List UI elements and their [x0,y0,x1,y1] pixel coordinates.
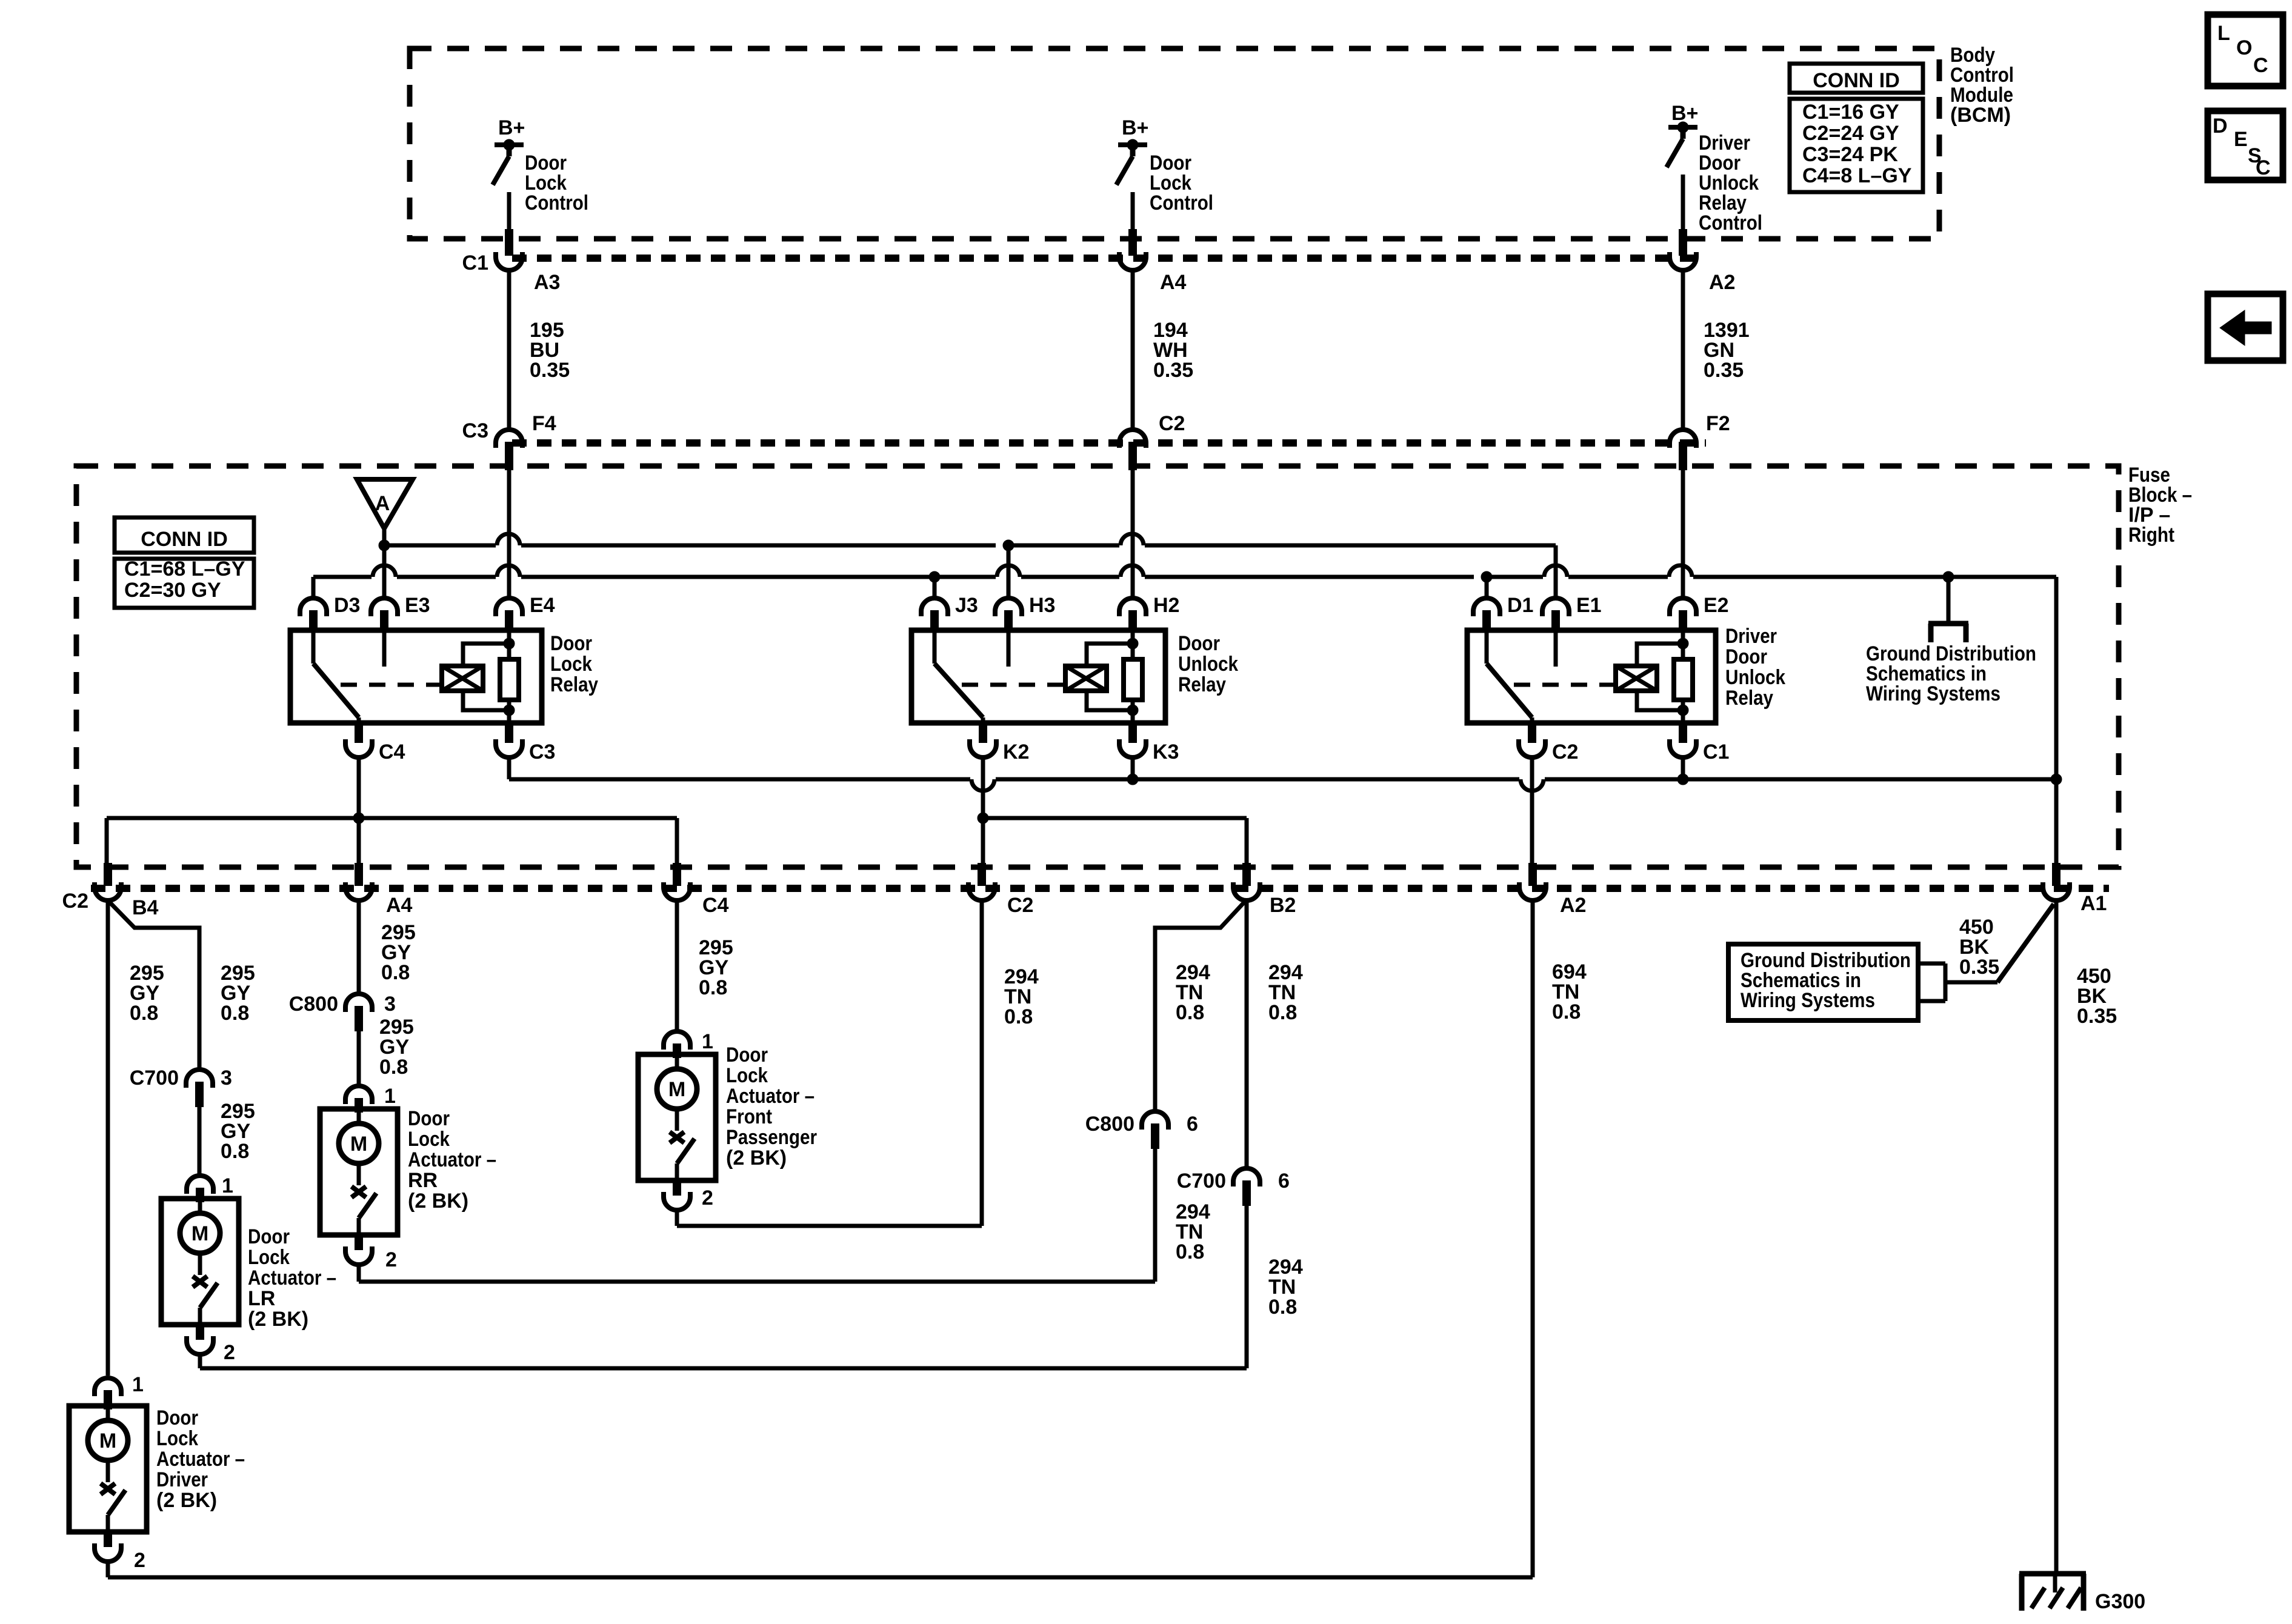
label: pin A2 [1560,894,1586,917]
svg-text:(2 BK): (2 BK) [726,1146,787,1170]
label: wire 295 GY 0.8 (after C700) [221,1100,255,1163]
svg-text:2: 2 [134,1549,145,1572]
door lock actuator driver: motor M [88,1406,128,1460]
svg-text:D1: D1 [1507,594,1533,617]
connector: relay output pin C4 [345,724,372,757]
label: pin B4 [132,896,159,919]
label: Door Lock Control (left switch) [525,151,588,215]
label: B+ (middle) [1122,116,1148,139]
svg-text:C3: C3 [529,740,555,764]
svg-text:A1: A1 [2080,892,2107,915]
svg-text:0.8: 0.8 [699,976,727,999]
svg-text:0.8: 0.8 [221,1002,249,1025]
door lock actuator RR: switch contact and lever [351,1163,376,1235]
label: LR pin 1 [222,1174,233,1197]
label: B+ (right) [1671,102,1698,125]
relay: Door Unlock Relay: fixed contact stub [1007,630,1011,667]
B+ terminal and switch driver (middle) in BCM [1116,139,1147,185]
relay: Door Lock Relay: coil (crossed box) [442,666,483,691]
wire: E2 drop (right column) [1681,470,1685,597]
wire: unlock-feed bus from K2 to connectors C2 and B2 [978,759,1247,863]
B+ terminal and switch driver (left) in BCM [493,139,524,185]
svg-text:C700: C700 [1177,1170,1226,1193]
wire: C800-3 to RR actuator pin 1 [357,1031,361,1085]
svg-text:D: D [2213,115,2228,138]
label: pin 6 [1278,1170,1290,1193]
svg-text:M: M [192,1222,208,1245]
svg-text:K3: K3 [1153,740,1179,764]
icon box: DESC [2208,111,2283,180]
svg-text:6: 6 [1278,1170,1290,1193]
svg-text:0.8: 0.8 [1176,1001,1204,1024]
wire: D1 riser [1485,577,1489,597]
ground G300 symbol [2019,1572,2086,1611]
label: pin E3 [405,594,430,617]
label: relay: Door Lock Relay [550,632,598,696]
label: relay: Door Unlock Relay [1178,632,1238,696]
svg-text:E4: E4 [530,594,555,617]
svg-text:C800: C800 [289,993,338,1016]
svg-text:B4: B4 [132,896,159,919]
connector: door lock actuator LR pin 2 [187,1325,213,1354]
svg-text:F2: F2 [1706,412,1730,435]
label: pin F4 [532,412,556,435]
connector: relay output pin C2 [1519,724,1545,757]
svg-text:L: L [2217,22,2230,45]
svg-text:E2: E2 [1704,594,1729,617]
label: pin C2 [1552,740,1578,764]
svg-text:(2 BK): (2 BK) [156,1489,217,1512]
svg-text:Actuator –: Actuator – [248,1266,336,1290]
label: pin C4 [379,740,405,764]
label: door lock actuator front passenger [726,1043,817,1170]
svg-text:J3: J3 [955,594,978,617]
wire: C2 drop to front passenger actuator pin 2 [677,902,982,1226]
svg-text:E1: E1 [1576,594,1602,617]
wire: C4 drop to front passenger actuator pin 1 [675,902,679,1030]
svg-text:(BCM): (BCM) [1950,104,2011,127]
label: Driver Door Unlock Relay Control (right switch) [1699,131,1762,235]
label: pin C2 [1159,412,1185,435]
connector: door lock actuator RR pin 1 [345,1086,372,1113]
svg-text:Unlock: Unlock [1178,653,1238,676]
relay: Driver Door Unlock Relay: fixed contact stub [1554,630,1558,667]
label: wire 294 TN 0.8 (C2 column) [1004,965,1039,1028]
svg-text:A4: A4 [1160,271,1187,294]
svg-text:Unlock: Unlock [1725,666,1785,689]
svg-text:C4: C4 [702,894,729,917]
svg-text:0.8: 0.8 [1004,1005,1033,1028]
label: wire 294 TN 0.8 (C700 branch) [1268,961,1303,1024]
svg-text:Passenger: Passenger [726,1126,817,1149]
svg-text:Door: Door [1725,645,1767,668]
connector C800 pin 3 (in-line, RR door) [345,994,372,1031]
svg-text:Door: Door [726,1043,768,1067]
CONN ID table of fuse block (C1=68 L-GY, C2=30 GY) [115,517,254,608]
label: wire 295 GY 0.8 (driver branch) [130,962,164,1025]
svg-text:Door: Door [1178,632,1220,655]
svg-text:B+: B+ [1671,102,1698,125]
relay: Door Unlock Relay: coil suppression resistor [1124,630,1142,723]
B+ terminal and switch driver (right) in BCM [1667,122,1697,167]
svg-text:C: C [2256,156,2271,179]
svg-text:G300: G300 [2095,1590,2145,1613]
relay: Driver Door Unlock Relay: coil (crossed box) [1616,666,1657,691]
svg-text:B+: B+ [498,116,525,139]
svg-text:O: O [2236,36,2252,59]
label: pin D1 [1507,594,1533,617]
svg-text:A3: A3 [534,271,560,294]
label: door lock actuator driver [156,1406,245,1512]
label: pin B2 [1270,894,1296,917]
connector: fuse block bottom pin A1 [2043,863,2070,900]
icon box: back arrow [2208,294,2283,361]
icon box: LOC [2208,15,2283,86]
label: wire 294 TN 0.8 (to LR pin 2) [1268,1256,1303,1319]
svg-text:C: C [2253,54,2268,77]
module box: Body Control Module (BCM), dashed border [410,48,1939,239]
door lock actuator LR: switch contact and lever [193,1253,218,1325]
connector row line: fuse block bottom connectors (dotted) [91,885,2109,892]
label: door lock actuator LR [248,1225,336,1331]
svg-text:C3=24 PK: C3=24 PK [1802,143,1898,166]
connector: relay pin J3 [921,598,948,631]
svg-text:0.8: 0.8 [130,1002,158,1025]
svg-text:C4=8 L–GY: C4=8 L–GY [1802,164,1912,187]
connector C2 pin F2 (fuse block, right) [1670,430,1696,470]
svg-text:Door: Door [248,1225,290,1248]
svg-text:1: 1 [132,1373,144,1396]
relay: Driver Door Unlock Relay: coil suppression resistor [1674,630,1693,723]
label: door lock actuator RR [408,1107,496,1213]
connector: relay pin H2 [1119,598,1146,631]
svg-text:Relay: Relay [1725,687,1773,710]
svg-text:Control: Control [1150,191,1213,215]
door lock actuator LR: motor M [180,1199,220,1253]
relay: Door Lock Relay: switch (common 517 to 592) [313,630,359,723]
svg-text:0.8: 0.8 [1268,1296,1297,1319]
label: pin A1 [2080,892,2107,915]
svg-text:A4: A4 [386,894,413,917]
connector: fuse block bottom pin B4 [95,863,121,900]
svg-text:C1: C1 [1703,740,1729,764]
wire: bus from D3 to J3, D1 and ground distribution (unlock feed) [313,565,2056,582]
connector: door lock actuator driver pin 2 [95,1532,121,1562]
svg-text:K2: K2 [1003,740,1029,764]
svg-text:0.35: 0.35 [1959,956,1999,979]
label: pin F2 [1706,412,1730,435]
connector C1 pin A4 (BCM, middle) [1119,229,1146,270]
label: pin 3 [221,1067,232,1090]
svg-text:LR: LR [248,1287,275,1310]
connector row line: BCM connector C1 (dotted) [512,255,1703,262]
svg-text:1: 1 [702,1030,713,1053]
svg-text:Lock: Lock [408,1128,450,1151]
svg-text:Actuator –: Actuator – [408,1148,496,1171]
wire 694 TN 0.8: A2 drop to driver actuator pin 2 [108,902,1533,1577]
wire: C700-6 down and across to LR actuator pin 2 [200,1206,1247,1368]
CONN ID table of BCM (C1=16 GY, C2=24 GY, C3=24 PK, C4=8 L-GY) [1790,64,1923,192]
svg-text:0.8: 0.8 [1176,1240,1204,1263]
wire: B4 branch diagonal to LR column [110,902,199,1068]
relay: Door Lock Relay: coil suppression resistor [500,630,519,723]
wire: C2 drop to driver door lock actuator pin 1 [106,902,110,1376]
label: C800 [289,993,338,1016]
relay: Driver Door Unlock Relay: actuation dashed link [1514,683,1616,687]
svg-text:(2 BK): (2 BK) [408,1190,468,1213]
svg-text:C2=30 GY: C2=30 GY [124,579,221,602]
label: pin C1 [1703,740,1729,764]
relay: Door Lock Relay: fixed contact stub [382,630,387,667]
svg-text:Lock: Lock [248,1246,290,1269]
svg-text:2: 2 [702,1186,713,1210]
wire: H3 drop [1007,545,1011,597]
label: Ground Distribution Schematics in Wiring Systems (upper) [1866,642,2036,705]
connector row line: fuse block connectors (dotted) [512,439,1706,447]
wire: E3 drop from node A [382,545,387,597]
svg-text:M: M [99,1429,116,1453]
svg-text:0.8: 0.8 [381,961,410,984]
svg-text:E: E [2234,128,2248,151]
door lock actuator front passenger: body [638,1054,716,1180]
svg-text:C2: C2 [62,890,88,913]
wire: A4 drop to C800 [357,902,361,993]
door lock actuator RR: body [320,1109,398,1235]
wire: E4 drop (left column) [507,470,511,597]
label: wire 194 WH 0.35 [1153,319,1193,382]
svg-text:2: 2 [224,1341,235,1364]
svg-text:H3: H3 [1029,594,1055,617]
wire: J3 riser [933,577,937,597]
label: wire 294 TN 0.8 (C800 branch) [1176,961,1210,1024]
label: C700 [130,1067,179,1090]
label: pin H2 [1153,594,1179,617]
label: pin C4 [702,894,729,917]
svg-text:0.35: 0.35 [530,359,570,382]
label: pin 3 [384,993,396,1016]
relay: Door Unlock Relay: switch (common 1542 to 1622) [934,630,983,723]
label: C1 [462,251,488,275]
label: wire 450 BK 0.35 (below A1) [2077,965,2117,1028]
svg-text:Right: Right [2128,524,2174,547]
svg-text:D3: D3 [334,594,360,617]
svg-text:0.35: 0.35 [2077,1005,2117,1028]
connector: door lock actuator driver pin 1 [95,1378,121,1409]
wire: right BCM output down to connector C1 pin A2 [1681,175,1685,230]
svg-text:CONN ID: CONN ID [1813,69,1900,92]
label: driver pin 2 [134,1549,145,1572]
connector C1 pin A2 (BCM, right) [1670,229,1696,270]
label: wire 1391 GN 0.35 [1704,319,1750,382]
label: pin H3 [1029,594,1055,617]
label: B+ (left) [498,116,525,139]
label: Body Control Module (BCM) [1950,44,2014,127]
label: driver pin 1 [132,1373,144,1396]
label: wire 195 BU 0.35 [530,319,570,382]
relay: Door Lock Relay: actuation dashed link [341,683,442,687]
svg-text:C2: C2 [1552,740,1578,764]
module box: Fuse Block - I/P - Right, dashed border [76,466,2119,867]
connector: relay output pin K3 [1119,724,1146,757]
relay: Door Lock Relay: body [290,630,542,723]
wire 450 BK 0.35: A1 to ground G300 [2054,902,2059,1572]
svg-text:0.35: 0.35 [1704,359,1744,382]
label: wire 694 TN 0.8 [1552,960,1587,1023]
connector: relay pin H3 [995,598,1022,631]
svg-text:3: 3 [384,993,396,1016]
svg-text:6: 6 [1187,1113,1198,1136]
relay: Door Lock Relay: coil bracket wiring and junctions [463,638,515,716]
label: pin J3 [955,594,978,617]
connector: relay pin D3 [300,598,327,631]
label: pin A3 [534,271,560,294]
svg-text:M: M [668,1078,685,1101]
svg-text:C3: C3 [462,419,488,442]
svg-text:Lock: Lock [550,653,592,676]
label: pin A4 [386,894,413,917]
wire: middle BCM output down to connector C1 pin A4 [1131,192,1135,230]
label: RR pin 1 [384,1085,396,1108]
svg-text:C1: C1 [462,251,488,275]
svg-text:Door: Door [156,1406,198,1429]
label: wire 450 BK 0.35 (left of A1) [1959,916,1999,979]
svg-text:0.8: 0.8 [379,1056,408,1079]
connector C800 pin 6 (in-line, RR door) [1142,1111,1168,1149]
wire 1391 GN 0.35 from A2 to fuse block F2 [1681,271,1685,430]
svg-text:Lock: Lock [726,1064,768,1087]
connector: relay output pin K2 [970,724,996,757]
wire: bus2 corner down to A1 column [2054,577,2059,863]
svg-text:Actuator –: Actuator – [156,1448,245,1471]
svg-text:0.35: 0.35 [1153,359,1193,382]
wire: bus joining C3, K3 and C1 to ground wire [509,756,2062,791]
svg-text:2: 2 [385,1248,397,1271]
svg-text:Relay: Relay [550,673,598,696]
svg-text:0.8: 0.8 [1268,1001,1297,1024]
svg-text:Control: Control [1699,211,1762,235]
label: wire 295 GY 0.8 (after C800) [379,1016,414,1079]
connector: door lock actuator front passenger pin 1 [664,1031,690,1058]
label: pin C2 [1007,894,1033,917]
label: relay: Driver Door Unlock Relay [1725,625,1785,710]
connector: fuse block bottom pin C4 [664,863,690,900]
label: pin 6 [1187,1113,1198,1136]
connector: door lock actuator LR pin 1 [187,1176,213,1202]
svg-text:Wiring Systems: Wiring Systems [1741,989,1875,1012]
label: pin A2 [1709,271,1735,294]
door lock actuator front passenger: switch contact and lever [670,1109,695,1180]
connector: relay output pin C3 [496,724,522,757]
wire: left BCM output down to connector C1 pin A3 [507,192,511,230]
connector C700 pin 3 (in-line, LR door) [186,1070,213,1107]
connector: fuse block bottom pin B2 [1233,863,1260,900]
svg-text:C800: C800 [1085,1113,1134,1136]
connector: fuse block bottom pin C2 [968,863,995,900]
svg-text:M: M [350,1133,367,1156]
label: pin E4 [530,594,555,617]
connector C2 pin C2 (fuse block, middle) [1119,430,1146,470]
label: wire 295 GY 0.8 (LR branch) [221,962,255,1025]
svg-text:Wiring Systems: Wiring Systems [1866,682,2001,705]
svg-text:3: 3 [221,1067,232,1090]
svg-text:0.8: 0.8 [221,1140,249,1163]
svg-text:(2 BK): (2 BK) [248,1308,308,1331]
connector: door lock actuator RR pin 2 [345,1235,372,1265]
ground distribution tap symbol (fuse block internal ground) [1928,577,1968,642]
label: FP pin 2 [702,1186,713,1210]
label: wire 294 TN 0.8 (to RR pin 2) [1176,1200,1210,1263]
wire: lock-feed bus from C4 to connectors B4/C2, A4 and C4 [107,759,677,863]
relay: Driver Door Unlock Relay: coil bracket wiring and junctions [1637,638,1688,716]
svg-text:1: 1 [222,1174,233,1197]
label: pin C3 [529,740,555,764]
connector: relay pin E1 [1542,598,1569,631]
svg-text:C2: C2 [1007,894,1033,917]
svg-text:C700: C700 [130,1067,179,1090]
svg-text:Door: Door [408,1107,450,1130]
connector: fuse block bottom pin A2 [1519,863,1546,900]
label: C2 (connector name, bottom left) [62,890,88,913]
svg-text:Door: Door [550,632,592,655]
connector: relay pin E2 [1670,598,1696,631]
svg-text:C1=68 L–GY: C1=68 L–GY [124,557,245,581]
label: Fuse Block - I/P - Right [2128,464,2192,547]
wire: E1 drop [1554,545,1558,597]
svg-text:A2: A2 [1709,271,1735,294]
label: Door Lock Control (middle switch) [1150,151,1213,215]
svg-text:F4: F4 [532,412,556,435]
label: C3 [462,419,488,442]
label: LR pin 2 [224,1341,235,1364]
connector: relay pin D1 [1473,598,1500,631]
connector: door lock actuator front passenger pin 2 [664,1180,690,1210]
wire: B2 branch diagonal to C800 pin 6 [1155,902,1244,1110]
svg-text:Driver: Driver [1725,625,1777,648]
svg-text:Relay: Relay [1178,673,1226,696]
reference box: Ground Distribution Schematics in Wiring Systems [1728,944,1918,1020]
wire: C700-3 to LR actuator pin 1 [198,1107,202,1174]
svg-text:CONN ID: CONN ID [141,528,228,551]
svg-text:B2: B2 [1270,894,1296,917]
svg-text:B+: B+ [1122,116,1148,139]
label: wire 295 GY 0.8 (RR branch) [381,921,416,984]
relay: Door Unlock Relay: actuation dashed link [962,683,1065,687]
door lock actuator driver: body [69,1406,147,1532]
label: C800 [1085,1113,1134,1136]
relay: Door Unlock Relay: coil (crossed box) [1065,666,1107,691]
svg-text:A2: A2 [1560,894,1586,917]
svg-text:1: 1 [384,1085,396,1108]
connector C700 pin 6 (in-line, LR door) [1233,1168,1260,1206]
label: wire 295 GY 0.8 (front passenger) [699,936,733,999]
wire 194 WH 0.35 from A4 to fuse block C2 [1131,271,1135,430]
relay: Driver Door Unlock Relay: switch (common 2453 to 2528) [1487,630,1532,723]
label: pin A4 [1160,271,1187,294]
svg-text:C1=16 GY: C1=16 GY [1802,101,1899,124]
svg-text:C2=24 GY: C2=24 GY [1802,122,1899,145]
connector: fuse block bottom pin A4 [345,863,372,900]
wire: C800-6 down and across to RR actuator pin 2 [359,1149,1155,1282]
door lock actuator RR: motor M [339,1109,379,1163]
connector: relay output pin C1 [1670,724,1696,757]
svg-text:Actuator –: Actuator – [726,1085,815,1108]
svg-text:Driver: Driver [156,1468,208,1491]
node A: triangle power feed symbol [357,479,413,545]
door lock actuator front passenger: motor M [657,1054,697,1109]
label: pin E2 [1704,594,1729,617]
label: pin K3 [1153,740,1179,764]
svg-text:Front: Front [726,1105,772,1128]
